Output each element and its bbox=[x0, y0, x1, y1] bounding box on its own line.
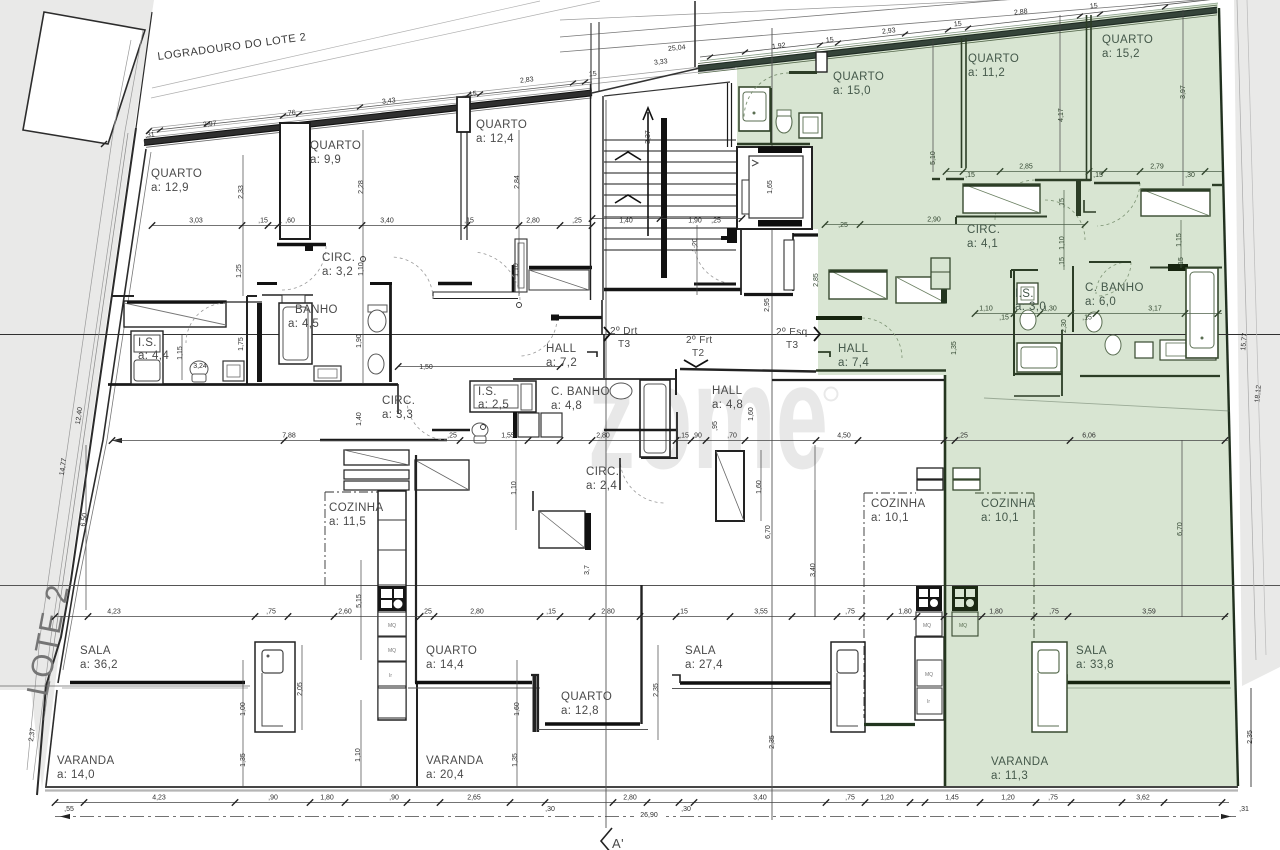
green C.BANHO 6,0 fixtures bbox=[1086, 312, 1216, 360]
left boundary offset dim line bbox=[44, 133, 128, 720]
wall kitchen/SALA bbox=[416, 455, 417, 786]
svg-text:,75: ,75 bbox=[845, 795, 855, 802]
wall pier between QUARTO 12,9 and QUARTO 9,9 bbox=[280, 123, 310, 239]
svg-text:2º Drt: 2º Drt bbox=[610, 326, 638, 337]
svg-text:T3: T3 bbox=[618, 339, 631, 350]
svg-text:,75: ,75 bbox=[266, 609, 276, 616]
svg-text:,30: ,30 bbox=[681, 806, 691, 813]
grey strip right side bbox=[1234, 0, 1280, 686]
svg-text:3,97: 3,97 bbox=[1180, 85, 1187, 99]
svg-text:a: 15,0: a: 15,0 bbox=[833, 85, 871, 97]
svg-text:,25: ,25 bbox=[447, 433, 457, 440]
watermark zome bbox=[588, 332, 838, 500]
svg-text:a: 11,5: a: 11,5 bbox=[329, 516, 366, 528]
svg-text:1,15: 1,15 bbox=[177, 346, 184, 360]
svg-text:,60: ,60 bbox=[285, 218, 295, 225]
svg-text:15: 15 bbox=[1090, 3, 1099, 11]
green tall bathtub right bbox=[1186, 268, 1218, 358]
svg-text:2,30: 2,30 bbox=[1061, 319, 1068, 333]
QUARTO 15,0 door pier bbox=[789, 52, 827, 73]
svg-text:CIRC.: CIRC. bbox=[382, 395, 415, 407]
fireplace box SALA 36,2 bbox=[255, 642, 295, 732]
top wall right section (over green) bbox=[698, 5, 1217, 73]
HALL window w diagonal bbox=[716, 451, 744, 521]
svg-text:2,35: 2,35 bbox=[769, 735, 776, 749]
svg-text:,75: ,75 bbox=[1048, 795, 1058, 802]
I.S. 4,4 walls bbox=[108, 296, 398, 385]
svg-text:,15: ,15 bbox=[1059, 198, 1066, 208]
svg-text:I.S.: I.S. bbox=[1015, 288, 1034, 300]
svg-text:3,7: 3,7 bbox=[584, 565, 591, 575]
QUARTO 12,4 bottom wall with window bbox=[529, 268, 592, 291]
svg-text:QUARTO: QUARTO bbox=[426, 645, 477, 657]
green wardrobe Q11,2 bbox=[956, 184, 1047, 224]
svg-text:5,10: 5,10 bbox=[930, 151, 937, 165]
stairwell west wall bbox=[591, 84, 604, 300]
LOTE 2 big label bbox=[20, 581, 76, 698]
C.BANHO 4,8 bathtub bbox=[640, 380, 670, 457]
fireplace box SALA 27,4 bbox=[831, 642, 865, 732]
svg-text:1,80: 1,80 bbox=[320, 795, 334, 802]
COZINHA 10,1 green dash-dot bbox=[975, 493, 1034, 712]
svg-text:2,65: 2,65 bbox=[467, 795, 481, 802]
green bathroom top-left box bbox=[739, 87, 770, 131]
svg-text:,55: ,55 bbox=[64, 806, 74, 813]
green C.BANHO black bar bbox=[1168, 264, 1188, 271]
svg-text:CIRC.: CIRC. bbox=[322, 252, 355, 264]
svg-text:2,80: 2,80 bbox=[596, 433, 610, 440]
svg-text:1,60: 1,60 bbox=[514, 702, 521, 716]
green kitchen stove bbox=[952, 586, 978, 611]
svg-text:3,37: 3,37 bbox=[645, 130, 652, 144]
svg-text:,15: ,15 bbox=[999, 315, 1009, 322]
BANHO shelf bbox=[282, 295, 305, 303]
svg-text:4,50: 4,50 bbox=[837, 433, 851, 440]
section marker A bbox=[601, 828, 612, 850]
svg-text:C. BANHO: C. BANHO bbox=[551, 386, 610, 398]
svg-text:a: 4,5: a: 4,5 bbox=[288, 318, 319, 330]
green I.S.3,0 fixtures bbox=[1017, 283, 1061, 372]
3,37 dim stairs bbox=[645, 130, 652, 144]
svg-text:I.S.: I.S. bbox=[478, 386, 497, 398]
svg-text:a: 2,5: a: 2,5 bbox=[478, 399, 509, 411]
CIRC 2,4 closet bbox=[539, 511, 591, 550]
T2 entry walls bbox=[641, 284, 816, 458]
svg-text:,15: ,15 bbox=[965, 172, 975, 179]
svg-text:a: 11,3: a: 11,3 bbox=[991, 770, 1028, 782]
BANHO west dark bar bbox=[257, 303, 262, 382]
svg-text:QUARTO: QUARTO bbox=[561, 691, 612, 703]
svg-text:C. BANHO: C. BANHO bbox=[1085, 282, 1144, 294]
wall segment CIRC 3,2 south bbox=[433, 284, 519, 300]
neighbour building footprint (white quad) bbox=[23, 12, 145, 144]
svg-text:1,60: 1,60 bbox=[756, 480, 763, 494]
HALL 7,2 walls bbox=[551, 300, 604, 378]
svg-text:2,84: 2,84 bbox=[514, 175, 521, 189]
svg-text:,15: ,15 bbox=[679, 433, 689, 440]
svg-text:15: 15 bbox=[826, 37, 835, 45]
svg-text:VARANDA: VARANDA bbox=[426, 755, 484, 767]
svg-text:,90: ,90 bbox=[389, 795, 399, 802]
svg-text:QUARTO: QUARTO bbox=[151, 168, 202, 180]
horizontal line y=686 left bbox=[0, 685, 250, 687]
left boundary rotated dims bbox=[28, 407, 89, 742]
grey sidewalk area top-left / LOTE 2 strip bbox=[0, 0, 154, 789]
C.BANHO 4,8 top wall bbox=[513, 378, 676, 380]
rotated interior dims bbox=[177, 85, 1187, 767]
svg-text:a: 2,4: a: 2,4 bbox=[586, 480, 617, 492]
kitchen stove bbox=[378, 586, 406, 611]
svg-text:,90: ,90 bbox=[268, 795, 278, 802]
QUARTO 9,9 bottom wall bbox=[277, 245, 326, 252]
svg-text:a: 6,0: a: 6,0 bbox=[1085, 296, 1116, 308]
bathroom row bottom walls bbox=[432, 429, 676, 431]
svg-text:6,06: 6,06 bbox=[1082, 433, 1096, 440]
green bedroom south walls bbox=[932, 179, 1222, 185]
toilet I.S.4,4 bbox=[190, 361, 208, 382]
svg-text:,15: ,15 bbox=[546, 609, 556, 616]
BANHO walls bbox=[257, 283, 392, 382]
wall QUARTO 15,0 / 11,2 bbox=[962, 38, 967, 168]
svg-text:QUARTO: QUARTO bbox=[1102, 34, 1153, 46]
svg-text:,15: ,15 bbox=[258, 218, 268, 225]
svg-text:VARANDA: VARANDA bbox=[991, 756, 1049, 768]
green kitchen MQ bbox=[952, 612, 978, 636]
svg-text:MQ: MQ bbox=[923, 623, 931, 629]
svg-text:HALL: HALL bbox=[838, 343, 869, 355]
BANHO toilet bbox=[368, 305, 387, 332]
svg-text:a: 14,4: a: 14,4 bbox=[426, 659, 464, 671]
svg-text:5,15: 5,15 bbox=[356, 594, 363, 608]
svg-text:a: 12,9: a: 12,9 bbox=[151, 182, 189, 194]
svg-text:a: 3,2: a: 3,2 bbox=[322, 266, 353, 278]
svg-text:3,40: 3,40 bbox=[810, 563, 817, 577]
svg-text:2,79: 2,79 bbox=[1150, 164, 1164, 171]
green kitchen fridge bbox=[953, 468, 980, 490]
center kitchen MQ bbox=[916, 612, 942, 636]
SALA 36,2 window sill bbox=[62, 683, 248, 689]
svg-text:2,28: 2,28 bbox=[358, 180, 365, 194]
svg-text:a: 12,8: a: 12,8 bbox=[561, 705, 599, 717]
svg-text:2,05: 2,05 bbox=[297, 682, 304, 696]
CIRC 3,3 walls bbox=[320, 384, 447, 440]
svg-text:VARANDA: VARANDA bbox=[57, 755, 115, 767]
center kitchen stove bbox=[916, 586, 942, 611]
boundary tick marks bbox=[101, 128, 152, 147]
svg-text:,76: ,76 bbox=[286, 109, 297, 117]
svg-text:MQ: MQ bbox=[925, 672, 933, 678]
bidet square I.S.4,4 bbox=[223, 361, 244, 381]
cupboard in landing wall bbox=[513, 239, 527, 292]
top wall left section bbox=[144, 88, 592, 147]
svg-text:,90: ,90 bbox=[692, 433, 702, 440]
svg-text:T2: T2 bbox=[692, 348, 705, 359]
svg-text:3,55: 3,55 bbox=[754, 609, 768, 616]
svg-text:15: 15 bbox=[954, 21, 963, 29]
dimension row B y=617 bbox=[52, 609, 1228, 620]
room labels bbox=[151, 168, 202, 194]
elevator bbox=[737, 147, 812, 230]
long horizontal reference line y=334.5 bbox=[0, 334, 1280, 336]
door arcs left apartment bbox=[186, 242, 736, 503]
svg-text:,30: ,30 bbox=[1185, 172, 1195, 179]
wall QUARTO 14,4 / QUARTO 12,8 bbox=[531, 675, 538, 732]
green wardrobe CIRC bbox=[896, 277, 947, 303]
svg-text:BANHO: BANHO bbox=[295, 304, 338, 316]
svg-text:3,59: 3,59 bbox=[1142, 609, 1156, 616]
kitchen top counters bbox=[344, 450, 469, 490]
svg-text:,25: ,25 bbox=[422, 609, 432, 616]
green bath walls bbox=[737, 88, 810, 144]
stair top landing slant wall bbox=[604, 82, 730, 96]
CIRC 2,4 walls bbox=[533, 458, 620, 511]
building right wall (green edge) bbox=[1219, 8, 1238, 786]
svg-text:2,85: 2,85 bbox=[1019, 164, 1033, 171]
svg-text:1,00: 1,00 bbox=[240, 702, 247, 716]
right strip rotated dims bbox=[1237, 0, 1266, 660]
svg-text:1,50: 1,50 bbox=[419, 364, 433, 371]
svg-text:2,90: 2,90 bbox=[927, 217, 941, 224]
interior thin dim verticals bbox=[182, 10, 1251, 787]
svg-text:1,25: 1,25 bbox=[236, 264, 243, 278]
svg-text:2º Esq: 2º Esq bbox=[776, 327, 808, 338]
svg-text:3,17: 3,17 bbox=[1148, 306, 1162, 313]
svg-text:COZINHA: COZINHA bbox=[871, 498, 926, 510]
sidewalk thin lines above top wall bbox=[150, 1, 735, 133]
svg-text:2,80: 2,80 bbox=[601, 609, 615, 616]
BANHO vanity bbox=[314, 366, 341, 381]
svg-text:1,45: 1,45 bbox=[945, 795, 959, 802]
svg-text:MQ: MQ bbox=[959, 623, 967, 629]
green apartment fill bbox=[737, 3, 1238, 786]
svg-text:SALA: SALA bbox=[685, 645, 716, 657]
svg-text:1,10: 1,10 bbox=[1059, 236, 1066, 250]
svg-text:CIRC.: CIRC. bbox=[967, 224, 1000, 236]
svg-text:,70: ,70 bbox=[727, 433, 737, 440]
svg-text:a: 4,4: a: 4,4 bbox=[138, 350, 169, 362]
stair bay outline top bbox=[591, 1, 700, 93]
svg-text:4,23: 4,23 bbox=[152, 795, 166, 802]
svg-text:2,35: 2,35 bbox=[1247, 730, 1254, 744]
green wardrobe Q15,0 low bbox=[829, 270, 887, 299]
svg-text:3,03: 3,03 bbox=[189, 218, 203, 225]
svg-text:a: 15,2: a: 15,2 bbox=[1102, 48, 1140, 60]
svg-text:15: 15 bbox=[589, 71, 598, 79]
svg-text:,15: ,15 bbox=[1059, 257, 1066, 267]
svg-text:a: 9,9: a: 9,9 bbox=[310, 154, 341, 166]
svg-text:1,20: 1,20 bbox=[880, 795, 894, 802]
vertical section line x=606 bbox=[605, 100, 607, 828]
green sink square bbox=[799, 113, 822, 138]
green small rotated dims bbox=[1059, 190, 1185, 270]
svg-text:2,35: 2,35 bbox=[653, 683, 660, 697]
svg-text:1,20: 1,20 bbox=[1001, 795, 1015, 802]
svg-text:a: 12,4: a: 12,4 bbox=[476, 133, 514, 145]
wall QUARTO 12,8 / SALA 27,4 bbox=[640, 585, 642, 724]
svg-text:a: 4,1: a: 4,1 bbox=[967, 238, 998, 250]
svg-text:3,24: 3,24 bbox=[193, 363, 207, 370]
svg-text:1,10: 1,10 bbox=[979, 306, 993, 313]
svg-text:1,90: 1,90 bbox=[356, 334, 363, 348]
svg-text:QUARTO: QUARTO bbox=[833, 71, 884, 83]
svg-text:QUARTO: QUARTO bbox=[968, 53, 1019, 65]
stair treads bbox=[604, 83, 736, 250]
svg-text:SALA: SALA bbox=[1076, 645, 1107, 657]
svg-text:26,90: 26,90 bbox=[640, 812, 658, 819]
misc small dims bbox=[193, 363, 433, 371]
svg-text:a: 4,8: a: 4,8 bbox=[551, 400, 582, 412]
svg-text:COZINHA: COZINHA bbox=[981, 498, 1036, 510]
C.BANHO 4,8 toilet bbox=[610, 383, 632, 399]
I.S. 4,4 fixtures bbox=[131, 331, 163, 384]
I.S. 2,5 washer box bbox=[470, 381, 536, 412]
stair bottom wall bbox=[604, 288, 741, 291]
svg-text:a: 10,1: a: 10,1 bbox=[871, 512, 909, 524]
SALA 33,8 low sill bbox=[864, 723, 915, 726]
elevator lobby walls bbox=[721, 228, 818, 295]
I.S. 2,5 toilet bbox=[472, 423, 488, 443]
svg-text:6,70: 6,70 bbox=[1177, 522, 1184, 536]
svg-text:1,80: 1,80 bbox=[989, 609, 1003, 616]
svg-text:I.S.: I.S. bbox=[138, 337, 157, 349]
center kitchen fridge boxes bbox=[917, 468, 943, 490]
svg-text:1,60: 1,60 bbox=[748, 407, 755, 421]
svg-text:a: 3,3: a: 3,3 bbox=[382, 409, 413, 421]
svg-text:,75: ,75 bbox=[845, 609, 855, 616]
svg-text:4,17: 4,17 bbox=[1058, 108, 1065, 122]
svg-text:1,35: 1,35 bbox=[951, 341, 958, 355]
svg-text:A': A' bbox=[612, 836, 624, 850]
QUARTO 12,9 window band bbox=[124, 301, 226, 327]
svg-text:2,95: 2,95 bbox=[764, 298, 771, 312]
svg-text:,25: ,25 bbox=[958, 433, 968, 440]
svg-text:1,55: 1,55 bbox=[501, 433, 515, 440]
svg-text:a: 7,4: a: 7,4 bbox=[838, 357, 869, 369]
svg-text:a: 11,2: a: 11,2 bbox=[968, 67, 1005, 79]
svg-text:1,35: 1,35 bbox=[512, 753, 519, 767]
building left wall bbox=[46, 149, 151, 786]
svg-text:1,80: 1,80 bbox=[898, 609, 912, 616]
green bath bottom walls bbox=[984, 330, 1230, 411]
green CIRC walls bbox=[1011, 262, 1222, 376]
QUARTO 14,4 window sill bbox=[408, 683, 540, 689]
HALL 7,4 thick wall bbox=[816, 318, 946, 371]
stair up arrows bbox=[615, 108, 653, 236]
kitchen dash-dot boundary bbox=[325, 492, 378, 585]
svg-text:a: 33,8: a: 33,8 bbox=[1076, 659, 1114, 671]
svg-text:1,10: 1,10 bbox=[358, 262, 365, 276]
svg-text:,15: ,15 bbox=[1093, 172, 1103, 179]
misc vline and circles bbox=[86, 257, 522, 611]
svg-text:2º Frt: 2º Frt bbox=[686, 335, 713, 346]
svg-text:HALL: HALL bbox=[546, 343, 577, 355]
svg-text:1,20: 1,20 bbox=[692, 238, 699, 252]
dimension row D y=816.5 total 26,90 bbox=[55, 809, 1236, 819]
svg-text:1,35: 1,35 bbox=[240, 753, 247, 767]
BANHO bathtub bbox=[279, 303, 312, 364]
svg-text:MQ: MQ bbox=[388, 648, 396, 654]
svg-text:3,62: 3,62 bbox=[1136, 795, 1150, 802]
svg-text:4,23: 4,23 bbox=[107, 609, 121, 616]
svg-text:3,40: 3,40 bbox=[380, 218, 394, 225]
green dim rows bbox=[822, 164, 1222, 322]
svg-text:1,75: 1,75 bbox=[238, 337, 245, 351]
washer machines bbox=[513, 412, 562, 438]
svg-text:T3: T3 bbox=[786, 340, 799, 351]
COZINHA 10,1 dash-dot center bbox=[864, 493, 916, 718]
boundary dim lines top right converge bbox=[560, 0, 1225, 61]
svg-text:1,10: 1,10 bbox=[511, 481, 518, 495]
svg-text:CIRC.: CIRC. bbox=[586, 466, 619, 478]
wall SALA27,4 / green bbox=[772, 375, 945, 786]
BANHO bidet bbox=[368, 354, 384, 374]
green sala fireplace box bbox=[1032, 642, 1067, 732]
svg-text:a: 4,8: a: 4,8 bbox=[712, 399, 743, 411]
svg-text:a: 20,4: a: 20,4 bbox=[426, 769, 464, 781]
svg-text:HALL: HALL bbox=[712, 385, 743, 397]
bottom wall / varanda floor line bbox=[45, 787, 1238, 791]
QUARTO 12,8 window sill bbox=[538, 724, 648, 730]
svg-text:a: 27,4: a: 27,4 bbox=[685, 659, 723, 671]
svg-text:2,80: 2,80 bbox=[526, 218, 540, 225]
svg-text:3,40: 3,40 bbox=[753, 795, 767, 802]
door chevrons apartment entries bbox=[604, 327, 820, 367]
svg-text:,31: ,31 bbox=[145, 131, 156, 139]
svg-text:,15: ,15 bbox=[464, 218, 474, 225]
svg-text:,75: ,75 bbox=[1049, 609, 1059, 616]
kitchen tall cabinet column bbox=[378, 491, 406, 720]
stairs dim row y=218 bbox=[589, 215, 745, 221]
svg-text:,30: ,30 bbox=[545, 806, 555, 813]
svg-text:,31: ,31 bbox=[1239, 806, 1249, 813]
svg-text:a: 10,1: a: 10,1 bbox=[981, 512, 1019, 524]
svg-text:a: 36,2: a: 36,2 bbox=[80, 659, 118, 671]
vertical section line x=772 bbox=[771, 28, 773, 820]
svg-text:QUARTO: QUARTO bbox=[310, 140, 361, 152]
svg-text:MQ: MQ bbox=[388, 623, 396, 629]
boundary parallel thin lines left bbox=[27, 30, 143, 780]
svg-text:Ir: Ir bbox=[927, 699, 930, 705]
wall pier between QUARTO 9,9 and QUARTO 12,4 bbox=[457, 97, 470, 240]
svg-text:,15: ,15 bbox=[1178, 257, 1185, 267]
svg-text:,25: ,25 bbox=[838, 222, 848, 229]
svg-text:6,70: 6,70 bbox=[765, 525, 772, 539]
stair stringer bbox=[661, 118, 667, 278]
green toilet bbox=[776, 110, 792, 133]
dimension row A y=441 bbox=[109, 433, 1228, 444]
svg-text:7,88: 7,88 bbox=[282, 433, 296, 440]
white kitchen cabinet column center-right bbox=[915, 637, 944, 720]
LOGRADOURO DO LOTE 2 label bbox=[157, 31, 307, 63]
svg-text:,25: ,25 bbox=[572, 218, 582, 225]
svg-text:2,60: 2,60 bbox=[338, 609, 352, 616]
svg-text:,95: ,95 bbox=[712, 421, 719, 431]
green varanda sill bbox=[1060, 675, 1231, 688]
1,50 dim line bbox=[395, 363, 563, 369]
svg-text:1,65: 1,65 bbox=[767, 180, 774, 194]
svg-text:2,80: 2,80 bbox=[623, 795, 637, 802]
left apartment top dim row y=225 bbox=[149, 218, 721, 229]
svg-text:zome: zome bbox=[588, 332, 828, 500]
green wardrobe Q15,2 bbox=[1141, 189, 1210, 216]
svg-text:1,40: 1,40 bbox=[356, 412, 363, 426]
svg-text:2,33: 2,33 bbox=[238, 185, 245, 199]
dimension row C y=803 bbox=[52, 795, 1249, 814]
svg-text:2,85: 2,85 bbox=[813, 273, 820, 287]
svg-text:2,80: 2,80 bbox=[470, 609, 484, 616]
svg-text:1,15: 1,15 bbox=[1176, 233, 1183, 247]
long horizontal reference line y=585 bbox=[0, 585, 1280, 587]
